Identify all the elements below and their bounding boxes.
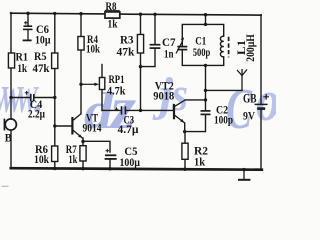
wire VT2 base bbox=[141, 109, 174, 111]
battery plus sign bbox=[263, 94, 269, 100]
wire C3 line left bbox=[102, 109, 121, 111]
capacitor C7 bbox=[150, 45, 161, 48]
junction bottom rail R7 bbox=[81, 167, 84, 170]
svg-text:o: o bbox=[256, 68, 276, 133]
capacitor C6 (electrolytic to ground) bbox=[23, 26, 33, 40]
VT2 emitter arrowhead bbox=[180, 119, 184, 123]
wire R7 to bottom rail bbox=[82, 161, 84, 169]
svg-text:9V: 9V bbox=[243, 109, 255, 123]
svg-text:4.7k: 4.7k bbox=[107, 84, 126, 98]
wire top V+ rail right segment bbox=[120, 14, 261, 15]
wire C4 line right bbox=[34, 97, 55, 99]
wire R3 lead from rail bbox=[140, 14, 142, 34]
svg-text:10k: 10k bbox=[86, 42, 100, 56]
ground (bottom rail) bbox=[238, 169, 250, 179]
junction VT2 collector node bbox=[204, 98, 207, 101]
capacitor C2 bbox=[201, 111, 211, 115]
battery GB bbox=[255, 104, 268, 108]
resistor R3 bbox=[137, 35, 143, 54]
junction R1 / C4 / mic node bbox=[9, 96, 12, 99]
C1 arrow head bbox=[181, 37, 185, 41]
capacitor C4 (electrolytic coupling) bbox=[31, 94, 34, 102]
junction C3 / VT2 base node bbox=[139, 109, 142, 112]
wire R6 to bottom rail bbox=[54, 162, 56, 169]
transistor VT2 9018 bbox=[174, 100, 185, 123]
capacitor C5 (electrolytic emitter bypass) bbox=[105, 155, 117, 159]
wire emitter node to R2 bbox=[184, 132, 186, 144]
wire VT1 emitter lead bbox=[82, 138, 84, 146]
svg-text:47k: 47k bbox=[33, 61, 50, 75]
junction VT1 base node bbox=[53, 124, 56, 127]
wire R4 to VT1 collector column bbox=[80, 50, 82, 114]
wire R5 to R6 column bbox=[54, 69, 56, 147]
resistor R4 bbox=[78, 37, 84, 51]
junction bottom rail R6 bbox=[53, 167, 56, 170]
svg-text:GB: GB bbox=[243, 91, 257, 105]
junction tank top feed bbox=[204, 23, 207, 26]
svg-text:200µH: 200µH bbox=[243, 34, 257, 62]
wire C7 bottom to R3 node bbox=[141, 49, 156, 67]
junction top rail R4 bbox=[79, 12, 82, 15]
variable capacitor C1 bbox=[176, 41, 187, 54]
junction tank bottom feed bbox=[204, 64, 207, 67]
wire C5 to bottom rail bbox=[109, 159, 111, 169]
wire tank bottom to C2 bbox=[205, 65, 207, 110]
svg-text:500p: 500p bbox=[193, 45, 211, 59]
junction VT2 emitter / C2 node bbox=[183, 130, 186, 133]
wire RP1 top stub bbox=[101, 65, 103, 78]
junction RP1 wiper tap bbox=[79, 83, 82, 86]
svg-text:1k: 1k bbox=[68, 152, 77, 166]
wire C4 node to mic B bbox=[10, 98, 12, 120]
scan smudge bottom-left bbox=[2, 185, 9, 187]
antenna bbox=[237, 69, 247, 90]
wire C3 line right to node bbox=[126, 109, 141, 111]
wire LC tank box bbox=[182, 24, 223, 65]
C4 polarity plus bbox=[25, 91, 29, 95]
wire C7 lead from rail bbox=[154, 14, 156, 44]
wire RP1 bottom to C3 line bbox=[101, 90, 103, 111]
wire antenna feed bbox=[206, 89, 243, 91]
svg-text:10k: 10k bbox=[34, 152, 49, 166]
wire right column rail to battery bbox=[260, 15, 262, 104]
resistor R6 bbox=[52, 146, 58, 162]
inductor L1 bbox=[220, 36, 228, 57]
wire battery to bottom rail bbox=[260, 109, 262, 170]
wire VT1 base bbox=[55, 125, 72, 127]
resistor R1 bbox=[8, 53, 14, 68]
wire R3 bottom lead bbox=[140, 53, 142, 67]
junction top rail tank feed bbox=[204, 13, 207, 16]
junction bottom rail ground stub bbox=[242, 168, 245, 171]
svg-text:100µ: 100µ bbox=[120, 155, 141, 169]
wire mic B to bottom rail bbox=[10, 130, 12, 168]
C5 polarity plus bbox=[106, 149, 110, 153]
svg-text:1k: 1k bbox=[17, 61, 27, 75]
wire R1 to C4 node bbox=[10, 68, 12, 98]
resistor R7 bbox=[80, 146, 86, 161]
wire top V+ rail left segment bbox=[11, 12, 105, 15]
svg-text:100p: 100p bbox=[214, 113, 233, 127]
svg-text:9014: 9014 bbox=[83, 121, 102, 135]
wire R3 node to C3 node bbox=[140, 67, 142, 111]
ground (below C6) bbox=[23, 39, 32, 41]
junction top rail C6 bbox=[26, 12, 29, 15]
svg-text:1k: 1k bbox=[108, 17, 118, 31]
junction top rail R3 bbox=[139, 13, 142, 16]
wire C6 lead from rail bbox=[27, 13, 29, 26]
junction bottom rail C5 bbox=[108, 167, 111, 170]
wire R4 lead from rail bbox=[80, 14, 82, 37]
svg-text:4.7µ: 4.7µ bbox=[118, 122, 139, 136]
label R8 underline bbox=[105, 10, 120, 12]
svg-text:B: B bbox=[5, 131, 12, 145]
junction antenna tap bbox=[204, 89, 207, 92]
potentiometer RP1 bbox=[81, 78, 105, 90]
svg-text:47k: 47k bbox=[117, 45, 135, 59]
wire VT2 emitter lead bbox=[184, 123, 186, 132]
wire bottom ground rail bbox=[11, 168, 262, 170]
junction top rail C7 bbox=[153, 13, 156, 16]
C6 polarity plus bbox=[24, 21, 28, 25]
junction bottom rail R2 bbox=[183, 168, 186, 171]
wire VT2 collector bbox=[185, 99, 205, 101]
wire left column to R1 bbox=[10, 13, 12, 53]
wire tank feed from rail bbox=[205, 15, 207, 25]
svg-text:1k: 1k bbox=[194, 155, 205, 169]
svg-text:9018: 9018 bbox=[153, 89, 174, 103]
junction R3/C7 node bbox=[139, 65, 142, 68]
wire C2 bottom to emitter bbox=[185, 115, 206, 132]
wire R2 to bottom rail bbox=[184, 159, 186, 169]
potentiometer RP1 wiper arrowhead bbox=[94, 83, 99, 86]
junction VT1 emitter node bbox=[81, 140, 84, 143]
resistor R8 bbox=[105, 12, 120, 18]
VT1 emitter arrowhead bbox=[78, 134, 82, 138]
microphone B bbox=[4, 119, 16, 131]
C3 polarity plus bbox=[115, 107, 119, 111]
junction C4 / R5 / R6 node bbox=[53, 96, 56, 99]
svg-text:1n: 1n bbox=[164, 47, 174, 61]
capacitor C3 (electrolytic coupling) bbox=[122, 106, 126, 114]
svg-text:2.2µ: 2.2µ bbox=[28, 107, 45, 121]
wire emitter to C5 bbox=[83, 141, 110, 152]
wire R5 lead from rail bbox=[54, 14, 56, 54]
svg-text:10µ: 10µ bbox=[35, 33, 51, 47]
wire C4 line left bbox=[11, 97, 30, 99]
transistor VT1 9014 bbox=[72, 114, 83, 139]
junction top rail R5 bbox=[53, 12, 56, 15]
resistor R5 bbox=[52, 53, 58, 69]
resistor R2 bbox=[182, 143, 188, 159]
